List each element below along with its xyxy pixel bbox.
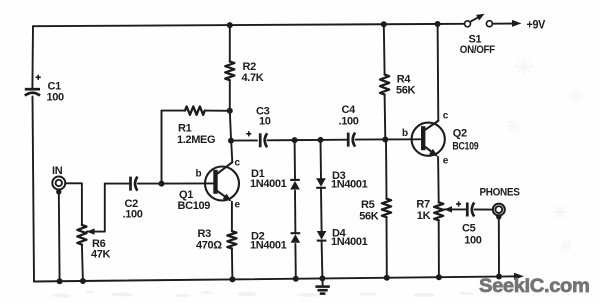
label D3 [332, 170, 346, 182]
wire base junction to Q1 [162, 182, 214, 184]
connector PHONES jack [493, 204, 505, 216]
label C1 value 100 [47, 92, 65, 104]
svg-text:R1: R1 [178, 123, 192, 135]
transistor Q2 body circle [412, 123, 445, 156]
wire D1 node to D1 [294, 140, 296, 180]
transistor Q1 emitter arrow [223, 194, 232, 202]
svg-text:SeekIC.com: SeekIC.com [479, 275, 590, 297]
label D1 [251, 168, 265, 180]
wire bottom ground rail [34, 276, 515, 281]
svg-text:Q2: Q2 [453, 128, 467, 140]
diode D1 [290, 180, 300, 190]
svg-text:R7: R7 [416, 199, 430, 211]
wire C5 to phones jack [475, 209, 493, 211]
node phones ground junction [496, 274, 502, 280]
C3 polarity + [246, 131, 251, 136]
transistor Q2 emitter diagonal [425, 147, 436, 155]
label R4 [397, 74, 412, 86]
wire C4 to R4 node [356, 138, 385, 140]
label Q1 pin c [235, 158, 241, 169]
wire Q1 collector stub [231, 141, 232, 163]
label R3 [198, 228, 212, 240]
svg-text:1K: 1K [417, 210, 431, 222]
label Q2 type BC109 [452, 140, 478, 152]
switch S1 lever arrow [476, 14, 485, 21]
svg-text:10: 10 [259, 116, 271, 128]
svg-text:.100: .100 [123, 209, 143, 221]
R7 wiper arrow [444, 206, 452, 212]
wire R5 top [385, 139, 388, 198]
capacitor C4 [348, 133, 355, 147]
svg-text:4.7K: 4.7K [242, 72, 264, 84]
transistor Q1 base bar [213, 170, 217, 194]
transistor Q2 emitter arrow [429, 149, 438, 157]
wire R3 to bottom rail [231, 249, 234, 280]
wire phones jack to bottom rail [498, 217, 500, 277]
node D1 top junction [292, 137, 298, 143]
svg-text:56K: 56K [359, 211, 379, 223]
wire Q1 collector riser [230, 111, 231, 141]
label D2 type 1N4001 [250, 240, 287, 252]
svg-text:BC109: BC109 [452, 140, 478, 152]
svg-text:470Ω: 470Ω [196, 239, 222, 251]
capacitor C2 [131, 177, 138, 191]
node R3 ground junction [229, 276, 235, 282]
label C3 [256, 106, 270, 118]
svg-text:IN: IN [52, 165, 63, 177]
resistor R5 [382, 199, 391, 218]
switch S1 pole contact [465, 21, 471, 27]
label +9V [527, 18, 546, 32]
wire IN jack to bottom rail [58, 192, 61, 282]
node R1-R2 junction [227, 108, 233, 114]
bottom rail arrowhead [514, 273, 524, 280]
svg-text:.100: .100 [339, 116, 359, 128]
node Q1 base junction [159, 181, 165, 187]
label Q1 pin b [196, 169, 202, 180]
wire IN jack to R6 top [65, 183, 82, 225]
node IN ground junction [57, 278, 63, 284]
capacitor C5 [467, 203, 474, 217]
capacitor C3 [260, 133, 267, 147]
wire left rail upper (to C1) [31, 26, 34, 89]
label R1 value 1.2MEG [177, 134, 215, 146]
svg-text:100: 100 [464, 235, 482, 247]
wire R7 wiper to C5 [444, 208, 467, 210]
svg-text:1N4001: 1N4001 [331, 236, 368, 248]
wire D3 node to C4 [321, 139, 349, 141]
label R7 [416, 199, 430, 211]
svg-text:BC109: BC109 [178, 200, 211, 212]
label C2 value .100 [123, 209, 143, 221]
wire R1 right segment [205, 110, 230, 112]
label C4 value .100 [339, 116, 359, 128]
ground stem [322, 278, 324, 286]
label Q1 pin e [235, 200, 241, 211]
node R6 ground junction [80, 278, 86, 284]
transistor Q1 emitter diagonal [218, 191, 230, 200]
wire Q1 emitter to R3 [231, 202, 233, 231]
wire D3 node to D3 [320, 140, 323, 178]
svg-text:PHONES: PHONES [480, 187, 520, 199]
label Q1 type BC109 [178, 200, 211, 212]
wire R6 wiper riser [87, 184, 105, 232]
wire R7 bottom [438, 220, 440, 277]
label D2 [251, 231, 265, 243]
PHONES jack terminal [496, 214, 501, 219]
label D3 type 1N4001 [331, 179, 368, 191]
wire D1 node to D3 node [295, 139, 321, 141]
label R5 value 56K [359, 211, 379, 223]
label C5 value 100 [464, 235, 482, 247]
svg-text:c: c [235, 158, 241, 169]
wire R4 top [383, 24, 386, 74]
wire wiper to C2 [105, 183, 131, 185]
diode D3 [316, 178, 326, 188]
resistor R2 [225, 62, 234, 81]
wire R2 top [229, 25, 231, 61]
transistor Q1 collector diagonal [218, 162, 233, 173]
label S1 [469, 34, 482, 46]
resistor R3 [227, 231, 236, 248]
IN jack terminal [56, 189, 61, 194]
node R4 bottom junction [382, 136, 388, 142]
svg-text:C4: C4 [342, 104, 357, 116]
R6 wiper arrow [87, 228, 95, 234]
wire C2 to base junction [138, 183, 162, 185]
svg-text:1N4001: 1N4001 [331, 179, 368, 191]
label Q2 pin c [443, 111, 449, 122]
wire S1 to +9V [492, 23, 512, 25]
transistor Q1 body circle [205, 167, 239, 201]
capacitor C1 [25, 89, 40, 95]
transistor Q2 collector diagonal [425, 121, 438, 130]
wire R1 left segment [162, 110, 186, 112]
node D3 top junction [318, 137, 324, 143]
svg-text:1.2MEG: 1.2MEG [177, 134, 215, 146]
label S1 ON/OFF [460, 44, 496, 56]
svg-text:e: e [235, 200, 241, 211]
svg-text:47K: 47K [91, 249, 111, 261]
wire C3 to D1 node [268, 139, 295, 141]
label D4 type 1N4001 [331, 236, 368, 248]
svg-text:e: e [443, 156, 449, 167]
switch S1 throw contact [486, 21, 492, 27]
+9V arrowhead [512, 20, 522, 27]
wire D4 to ground junction [321, 242, 324, 279]
label R1 [178, 123, 192, 135]
label R6 [92, 238, 106, 250]
node Q2 collector top junction [435, 21, 441, 27]
wire D2 to bottom rail [294, 244, 296, 279]
transistor Q2 base bar [421, 126, 425, 150]
label Q2 pin e [443, 156, 449, 167]
wire D1 to D2 [294, 191, 296, 234]
svg-text:1N4001: 1N4001 [250, 240, 287, 252]
wire R5 bottom [386, 217, 388, 278]
label Q2 [453, 128, 467, 140]
label R4 value 56K [396, 84, 416, 96]
label Q2 pin b [402, 128, 408, 139]
svg-text:b: b [402, 128, 408, 139]
wire D3 to D4 [320, 189, 323, 231]
label PHONES [480, 187, 520, 199]
wire R6 bottom [82, 245, 83, 281]
switch S1 lever [471, 16, 480, 21]
resistor R1 [185, 106, 205, 114]
connector IN jack [52, 177, 65, 190]
label D4 [332, 228, 347, 240]
label R2 value 4.7K [242, 72, 264, 84]
label R2 [243, 61, 257, 73]
label C4 [342, 104, 357, 116]
wire top supply rail [33, 24, 464, 26]
node R7 ground junction [436, 274, 442, 280]
diode D4 [317, 231, 327, 241]
C1 polarity + [36, 75, 41, 80]
label Q1 [179, 189, 193, 201]
node D2 ground junction [293, 276, 299, 282]
label C2 [125, 198, 139, 210]
wire Q2 emitter to R7 [437, 157, 440, 202]
node Q1 collector junction [228, 138, 234, 144]
wire left rail lower (C1 to bottom) [33, 97, 35, 282]
label R3 value 470ohm [196, 239, 222, 251]
label C1 [48, 81, 62, 93]
svg-text:100: 100 [47, 92, 65, 104]
C5 polarity + [456, 201, 461, 206]
node R2 top junction [227, 22, 233, 28]
wire R2 bottom [229, 80, 231, 111]
diode D2 [291, 233, 301, 243]
svg-text:c: c [443, 111, 449, 122]
label D1 type 1N4001 [250, 178, 287, 190]
wire R1 left riser [161, 111, 163, 184]
wire R4 node to Q2 base [385, 138, 420, 140]
node ground junction [319, 275, 325, 281]
node R5 ground junction [384, 275, 390, 281]
wire R4 bottom [384, 95, 387, 140]
svg-text:56K: 56K [396, 84, 416, 96]
svg-text:+9V: +9V [527, 18, 546, 32]
watermark SeekIC.com [479, 275, 590, 297]
svg-text:R3: R3 [198, 228, 212, 240]
wire Q2 collector riser [437, 24, 440, 121]
label R5 [361, 199, 375, 211]
label R7 value 1K [417, 210, 431, 222]
resistor R7 [434, 202, 443, 220]
resistor R6 [77, 225, 86, 245]
label R6 value 47K [91, 249, 111, 261]
svg-text:R5: R5 [361, 199, 375, 211]
svg-text:b: b [196, 169, 202, 180]
ground [315, 287, 329, 294]
node R4 top junction [381, 21, 387, 27]
resistor R4 [380, 75, 389, 95]
svg-text:C5: C5 [462, 223, 476, 235]
label C3 value 10 [259, 116, 271, 128]
svg-text:1N4001: 1N4001 [250, 178, 287, 190]
wire collector junction to C3 [231, 139, 257, 141]
svg-text:R2: R2 [243, 61, 257, 73]
label IN [52, 165, 63, 177]
label C5 [462, 223, 476, 235]
svg-text:Q1: Q1 [179, 189, 193, 201]
svg-text:ON/OFF: ON/OFF [460, 44, 496, 56]
